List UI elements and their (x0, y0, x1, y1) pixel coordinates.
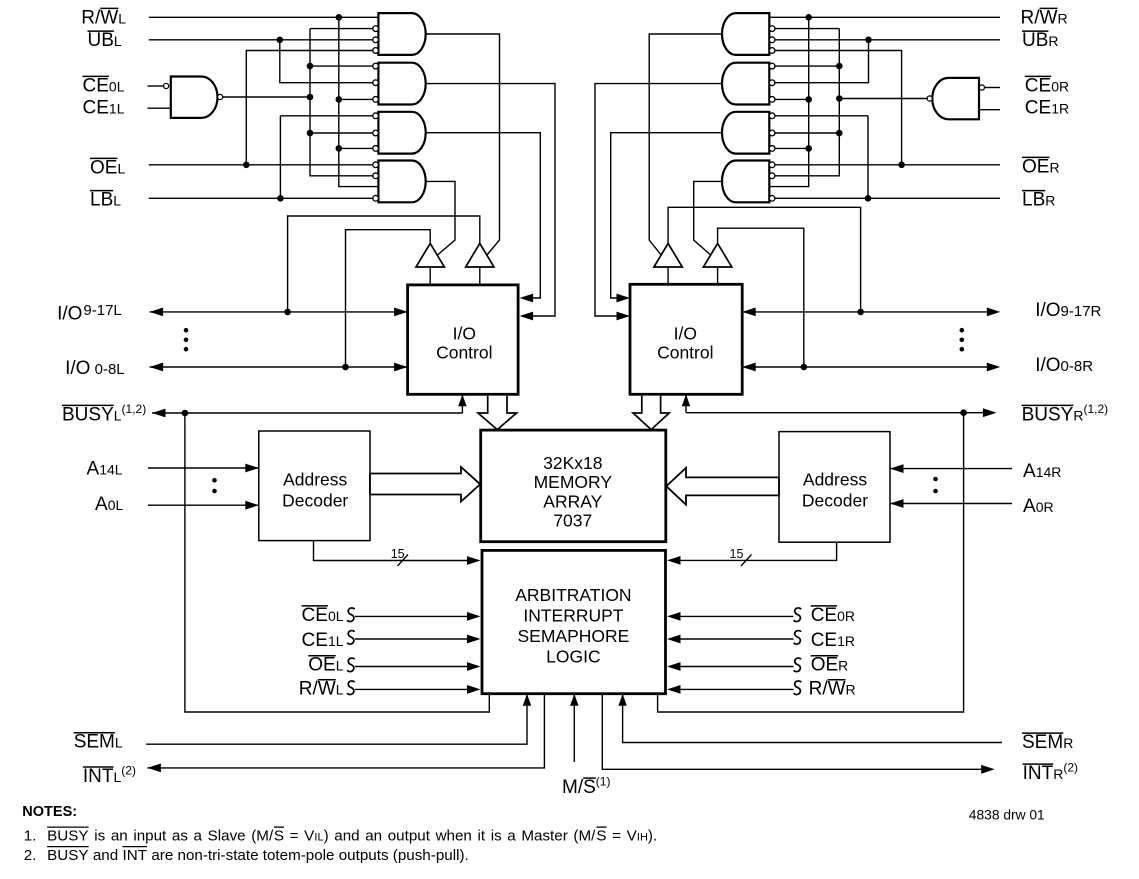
svg-text:Decoder: Decoder (282, 491, 348, 511)
junction CE bus g3 (307, 130, 314, 137)
and-gate G2R (722, 63, 769, 105)
svg-text:2.BUSY and INT are non-tri-sta: 2.BUSY and INT are non-tri-state totem-p… (24, 847, 469, 864)
wire G2R out to IO ctrl (595, 84, 722, 316)
svg-text:Address: Address (803, 470, 867, 490)
wire G2L out to IO ctrl (426, 84, 555, 316)
svg-text:LBL: LBL (90, 190, 121, 211)
junction CE bus g2 (307, 63, 314, 70)
wire T1L apex to IO0-8 (346, 230, 431, 367)
wire arb input R2 (679, 638, 794, 640)
wire CE bus vertical (310, 29, 373, 176)
dots ellipsis A R (933, 477, 938, 482)
nand U1R output bubble (927, 96, 932, 101)
svg-text:INTERRUPT: INTERRUPT (523, 606, 623, 626)
svg-text:UBR: UBR (1022, 30, 1059, 51)
svg-text:A14R: A14R (1023, 461, 1061, 482)
junction BUSYL (182, 410, 189, 417)
and-gate G2L (378, 63, 425, 105)
wire T2L apex to IO9-17 (288, 216, 480, 312)
svg-text:R/WR: R/WR (809, 679, 856, 700)
wire A0R (890, 503, 1012, 505)
svg-text:MEMORY: MEMORY (534, 472, 613, 492)
svg-text:I/O: I/O (674, 323, 697, 343)
buffer T1L (416, 243, 444, 267)
wire UB bus R vertical (775, 40, 869, 83)
junction LB bus R (865, 195, 872, 202)
svg-text:I/O0-8R: I/O0-8R (1035, 355, 1093, 376)
junction T2L on IO9-17 (284, 309, 291, 316)
wire BUSYL (152, 412, 462, 414)
svg-text:A0R: A0R (1023, 496, 1054, 517)
svg-text:Control: Control (436, 342, 492, 362)
wire arb input L4 (355, 688, 469, 690)
svg-text:CE1R: CE1R (811, 630, 855, 651)
junction T1R on IO9-17R (857, 309, 864, 316)
wire IO0-8R (742, 366, 987, 368)
buffer T2L (466, 243, 494, 267)
squiggle R2 (794, 631, 801, 645)
and-gate G4L (378, 161, 425, 203)
junction UB bus R (865, 37, 872, 44)
junction OE bus (243, 162, 250, 169)
squiggle R3 (794, 658, 801, 672)
junction UB bus (277, 37, 284, 44)
bus arrow decoder L to memory (370, 467, 480, 502)
wire address 15 L (314, 541, 470, 561)
junction CE bus R g3 (836, 130, 843, 137)
wire T2L out down (479, 267, 481, 285)
wire BUSYL up into IO control (461, 394, 463, 413)
wire T1R out down (667, 267, 669, 284)
svg-text:7037: 7037 (553, 511, 592, 531)
svg-text:CE1L: CE1L (83, 98, 125, 119)
svg-text:I/O: I/O (453, 323, 476, 343)
junction BUSYR (960, 409, 967, 416)
G4L input bubbles (373, 162, 379, 168)
wire INTR (602, 694, 983, 770)
wire G4R out to buffer ctrl (694, 181, 722, 255)
wire RW R to g2 (775, 98, 809, 100)
svg-text:SEMAPHORE: SEMAPHORE (517, 626, 629, 646)
squiggle R1 (794, 608, 801, 622)
dots ellipsis IO R (960, 328, 965, 333)
wire A14R (890, 468, 1012, 470)
junction RW bus g2 (336, 96, 343, 103)
junction T1L on IO0-8 (342, 364, 349, 371)
wire RW bus R vertical (769, 17, 808, 186)
svg-text:CE0R: CE0R (1025, 75, 1069, 96)
svg-text:I/O 0-8L: I/O 0-8L (65, 358, 125, 379)
svg-text:SEML: SEML (74, 732, 123, 753)
wire CE to g3 (310, 132, 373, 134)
wire CE to g2 (310, 65, 373, 67)
junction OE bus R (898, 162, 905, 169)
wire arb input R4 (679, 688, 794, 690)
wire NAND R out (839, 98, 927, 100)
block Arbitration Logic (482, 550, 666, 693)
nand U1R input bubble (979, 85, 984, 90)
G1R input bubbles (769, 26, 775, 32)
svg-text:32Kx18: 32Kx18 (543, 453, 602, 473)
G2R input bubbles (769, 63, 775, 69)
squiggle L4 (347, 681, 354, 695)
and-gate G1R (722, 13, 769, 55)
svg-text:R/WL: R/WL (81, 7, 126, 28)
svg-text:A14L: A14L (87, 458, 123, 479)
wire INTL (147, 694, 544, 768)
svg-text:15: 15 (391, 547, 405, 561)
wire arb input L2 (355, 638, 469, 640)
wire CE1R to NAND (979, 109, 1000, 111)
wire G4L out to buffer ctrl (426, 181, 455, 255)
svg-text:Decoder: Decoder (802, 491, 868, 511)
wire UB bus vertical (280, 40, 373, 83)
dots ellipsis IO L (184, 328, 189, 333)
wire OE bus vertical (246, 51, 373, 165)
svg-text:OER: OER (1022, 156, 1060, 177)
svg-text:CE0L: CE0L (302, 605, 344, 626)
wire BUSYL feedback (185, 413, 489, 712)
wire IO0-8L (150, 366, 408, 368)
wire T1L out down (429, 267, 431, 285)
wire T2R apex to IO0-8R (718, 228, 804, 367)
wire IO9-17R (742, 311, 987, 313)
svg-text:ARRAY: ARRAY (543, 491, 602, 511)
wire SEMR (623, 694, 1002, 743)
svg-text:R/WL: R/WL (299, 679, 344, 700)
block Memory Array (481, 430, 666, 542)
G1L input bubbles (373, 26, 379, 32)
svg-text:CE1L: CE1L (302, 630, 344, 651)
squiggle R4 (794, 681, 801, 695)
junction LB bus (277, 195, 284, 202)
svg-text:Address: Address (283, 470, 347, 490)
buffer T2R (703, 243, 731, 267)
wire LBR (775, 197, 1000, 199)
block IO Control L (408, 285, 518, 394)
svg-text:SEMR: SEMR (1022, 732, 1073, 753)
wire G1L out to buffer ctrl (426, 34, 500, 255)
bus arrow decoder R to memory (666, 468, 779, 505)
wire BUSYR up into IO control (685, 394, 687, 412)
nand U1L input bubble (164, 83, 169, 88)
svg-text:1.BUSY is an input as a Slave: 1.BUSY is an input as a Slave (M/S = VIL… (24, 828, 658, 845)
wire R/WL (149, 16, 379, 18)
svg-text:9-17L: 9-17L (83, 302, 121, 319)
G3R input bubbles (769, 113, 775, 119)
and-gate G3R (722, 112, 769, 154)
svg-text:CE1R: CE1R (1025, 98, 1069, 119)
and-gate G4R (722, 161, 769, 203)
wire LB bus R vertical (867, 116, 869, 199)
svg-text:R/WR: R/WR (1021, 7, 1068, 28)
svg-text:LOGIC: LOGIC (546, 647, 600, 667)
wire A14L (148, 467, 259, 469)
wire M/S (573, 694, 575, 762)
svg-text:NOTES:: NOTES: (22, 804, 77, 820)
junction CE bus R nand (836, 95, 843, 102)
svg-text:OER: OER (811, 655, 849, 676)
dots ellipsis A L (212, 478, 217, 483)
wire CE R to g2 (775, 65, 840, 67)
wire LBL (149, 197, 373, 199)
svg-text:I/O9-17R: I/O9-17R (1035, 300, 1101, 321)
wire BUSYR feedback (658, 413, 964, 712)
nand U1L (171, 77, 218, 118)
block Address Decoder R (779, 432, 890, 543)
G2L input bubbles (373, 63, 379, 69)
wire NAND out (223, 96, 310, 98)
wire IO9-17L (150, 311, 408, 313)
wire CE0R to NAND (985, 87, 1000, 89)
bus arrow IO L to memory (478, 396, 517, 430)
wire arb input R1 (679, 615, 794, 617)
G3L input bubbles (373, 113, 379, 119)
G4R input bubbles (769, 162, 775, 168)
wire R/WR (769, 16, 1000, 18)
wire CE0L to NAND (148, 85, 164, 87)
bus arrow IO R to memory (633, 396, 669, 430)
svg-text:4838 drw 01: 4838 drw 01 (969, 808, 1045, 823)
wire OE bus R vertical (775, 51, 902, 165)
wire LB bus vertical (279, 116, 281, 199)
wire RW to g2 (339, 98, 373, 100)
wire CE1L to NAND (148, 107, 171, 109)
svg-text:CE0R: CE0R (811, 605, 855, 626)
svg-text:A0L: A0L (95, 494, 123, 515)
junction CE bus nand out (307, 94, 314, 101)
buffer T1R (654, 243, 682, 267)
block IO Control R (630, 284, 742, 394)
wire SEML (146, 694, 527, 745)
nand U1R (932, 78, 979, 119)
wire RW to g3 (339, 147, 373, 149)
squiggle L2 (347, 631, 354, 645)
wire T1R apex to IO9-17R (668, 207, 861, 312)
svg-text:OEL: OEL (90, 157, 125, 178)
junction RW bus R g3 (805, 145, 812, 152)
wire RW bus vertical (339, 17, 379, 186)
svg-text:LBR: LBR (1022, 190, 1055, 211)
svg-text:15: 15 (730, 547, 744, 561)
block Address Decoder L (259, 431, 370, 541)
slash 15 R (741, 555, 752, 567)
wire T2R out down (717, 267, 719, 284)
svg-text:CE0L: CE0L (83, 75, 125, 96)
wire G1R out to buffer ctrl (649, 34, 722, 255)
wire OEL (149, 164, 373, 166)
wire BUSYR (686, 412, 983, 414)
junction RW bus top (336, 14, 343, 21)
svg-text:I/O: I/O (57, 304, 82, 325)
squiggle L1 (347, 608, 354, 622)
svg-text:ARBITRATION: ARBITRATION (515, 585, 631, 605)
junction RW bus R g2 (805, 96, 812, 103)
svg-text:OEL: OEL (308, 655, 343, 676)
wire CE R to g3 (775, 132, 840, 134)
wire UBR (775, 39, 1000, 41)
junction CE bus R g2 (836, 63, 843, 70)
junction RW bus g3 (336, 145, 343, 152)
svg-text:Control: Control (657, 342, 713, 362)
and-gate G3L (378, 112, 425, 154)
junction RW bus R top (805, 14, 812, 21)
wire arb input R3 (679, 666, 794, 668)
wire address 15 R (679, 542, 837, 560)
wire arb input L1 (355, 615, 469, 617)
wire RW R to g3 (775, 147, 809, 149)
wire A0L (148, 504, 259, 506)
wire OER (775, 164, 1000, 166)
svg-text:UBL: UBL (88, 30, 122, 51)
squiggle L3 (347, 658, 354, 672)
slash 15 L (398, 555, 409, 567)
wire G3L out to IO ctrl (426, 133, 541, 298)
wire G3R out to IO ctrl (611, 133, 722, 298)
junction T2R on IO0-8R (801, 364, 808, 371)
wire UBL (149, 39, 373, 41)
wire CE bus R vertical (775, 29, 840, 176)
wire arb input L3 (355, 666, 469, 668)
nand U1L output bubble (218, 94, 223, 99)
and-gate G1L (378, 13, 425, 55)
